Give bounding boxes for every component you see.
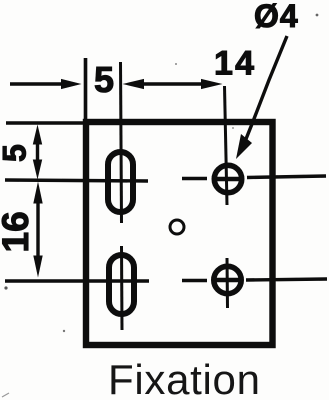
svg-text:5: 5 bbox=[0, 144, 32, 162]
svg-text:Fixation: Fixation bbox=[108, 356, 261, 400]
svg-text:14: 14 bbox=[214, 45, 256, 83]
svg-text:Ø4: Ø4 bbox=[254, 0, 299, 34]
svg-text:5: 5 bbox=[94, 59, 114, 100]
svg-text:16: 16 bbox=[0, 211, 36, 252]
